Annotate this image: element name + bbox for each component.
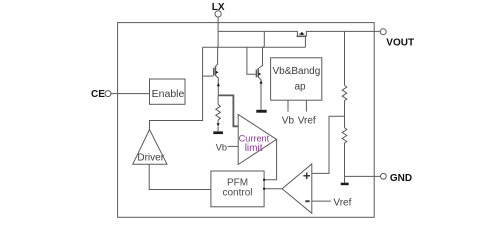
svg-text:limit: limit bbox=[245, 143, 263, 154]
svg-text:Vb: Vb bbox=[216, 142, 227, 152]
svg-text:CE: CE bbox=[91, 89, 105, 100]
svg-text:Vb: Vb bbox=[282, 116, 295, 127]
svg-text:ap: ap bbox=[294, 81, 306, 92]
svg-text:Driver: Driver bbox=[137, 153, 164, 164]
svg-text:VOUT: VOUT bbox=[386, 37, 414, 48]
svg-text:control: control bbox=[222, 188, 252, 199]
svg-text:Vref: Vref bbox=[333, 197, 351, 208]
svg-text:LX: LX bbox=[212, 2, 225, 13]
svg-text:Vref: Vref bbox=[298, 116, 316, 127]
svg-text:Enable: Enable bbox=[152, 88, 185, 100]
svg-text:GND: GND bbox=[390, 173, 412, 184]
svg-text:Vb&Bandg: Vb&Bandg bbox=[272, 66, 320, 77]
